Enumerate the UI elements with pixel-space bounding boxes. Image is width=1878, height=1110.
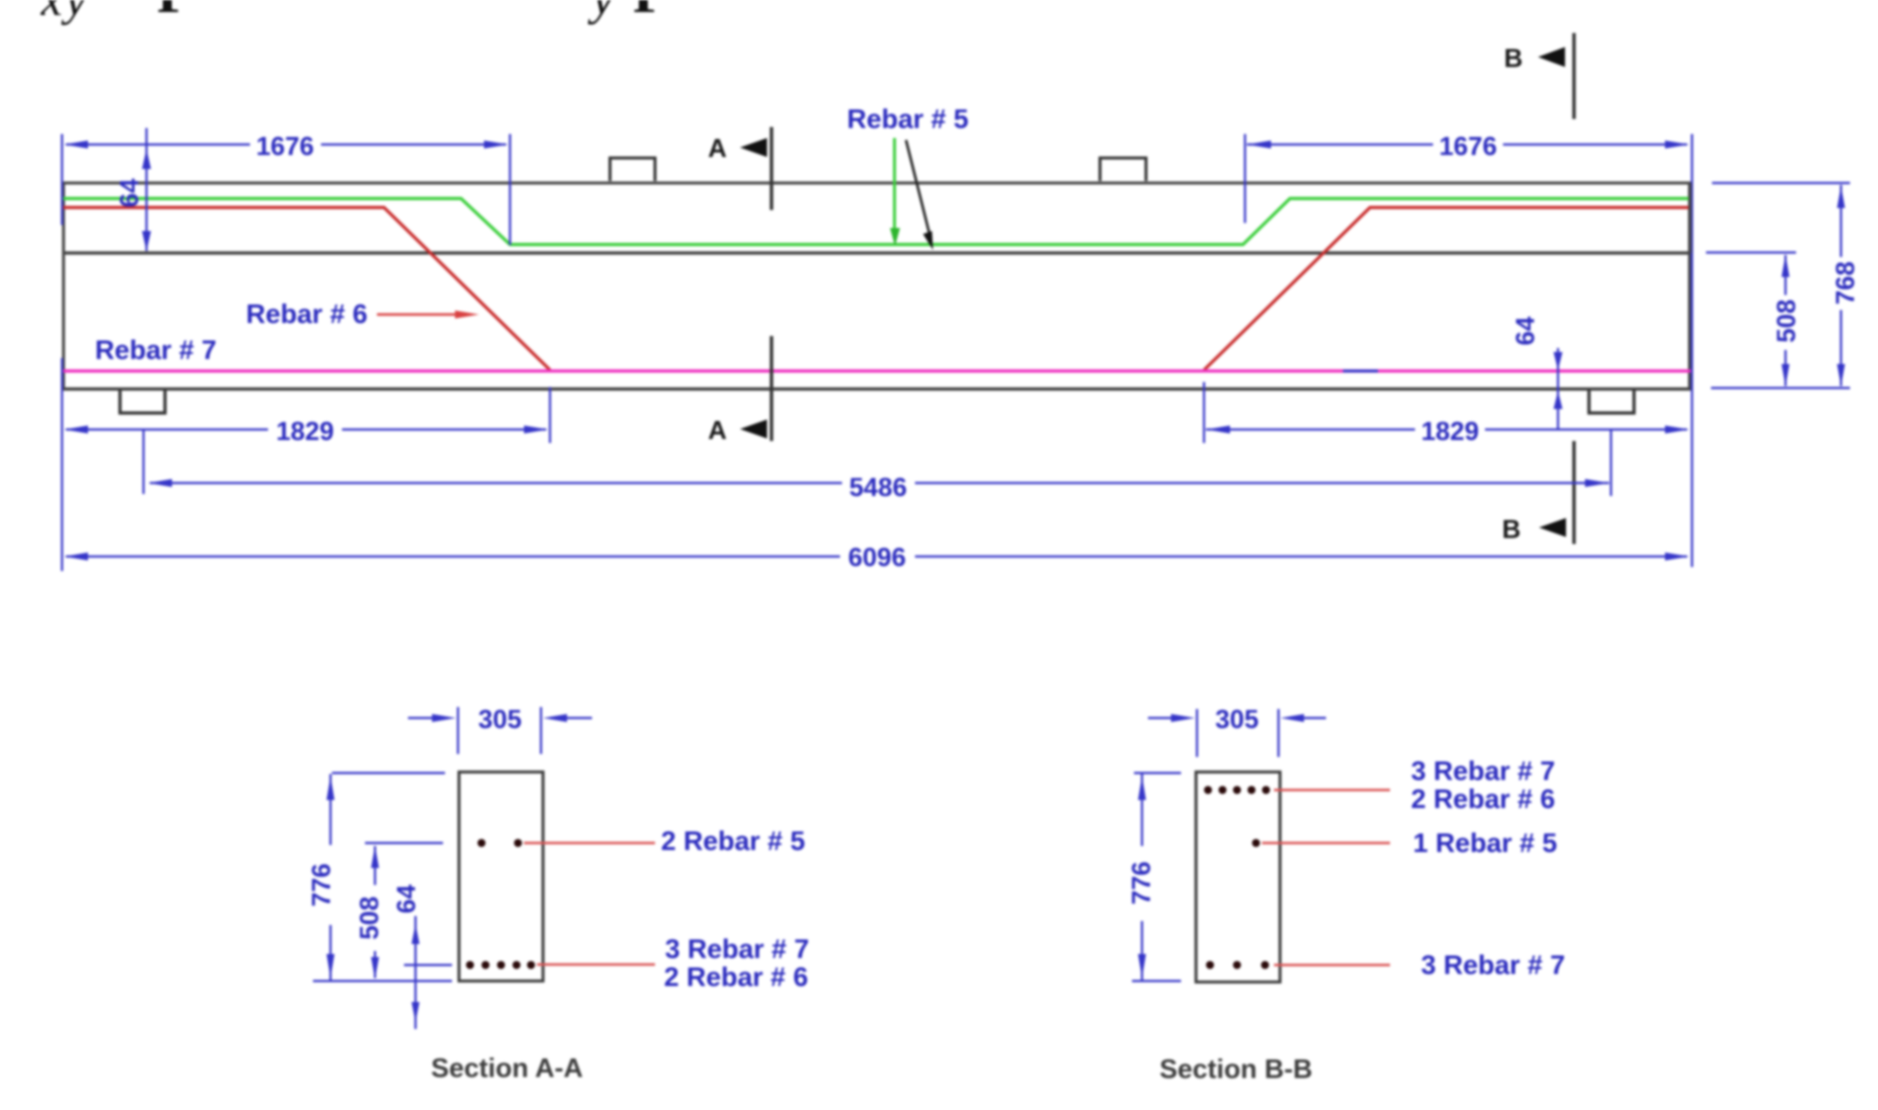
section B-B middle rebar dot (1 Rebar #5) [1252,839,1260,847]
svg-text:3 Rebar # 7: 3 Rebar # 7 [665,934,809,964]
dimension 776 (B-B) [1132,773,1181,981]
beam bottom line [62,387,1691,390]
dimension 305 (A-A) [408,707,592,754]
svg-text:B: B [1504,43,1523,73]
section line B top [1572,33,1575,119]
section line B bottom [1572,441,1575,544]
rebar #7 (magenta) straight bar [62,369,1691,372]
dimension 768 right side [1711,183,1850,388]
svg-text:64: 64 [1510,316,1540,345]
svg-text:305: 305 [1215,704,1258,734]
svg-text:64: 64 [114,178,144,207]
svg-text:Rebar # 5: Rebar # 5 [847,104,969,134]
leader 2 Rebar # 5 (A-A) [524,842,655,845]
dimension 508 right side [1706,253,1796,387]
beam right edge dark overdraw [1689,183,1692,253]
svg-text:Section A-A: Section A-A [431,1053,583,1083]
dimension 64 right (rebar 7 cover) [1557,348,1559,429]
svg-text:A: A [708,133,727,163]
dimension 1676 left [66,134,510,245]
support block left [120,390,165,413]
blue tick on rebar 7 [1343,370,1378,373]
svg-text:1 Rebar # 5: 1 Rebar # 5 [1413,828,1557,858]
leader red arrow for rebar 6 [377,313,462,315]
svg-text:1829: 1829 [276,416,334,446]
dimension 305 (B-B) [1148,709,1326,757]
dimension 776 (A-A) [313,773,452,981]
rebar #5 (green) bent bar [62,199,1691,245]
svg-text:2 Rebar # 5: 2 Rebar # 5 [661,826,805,856]
svg-text:y: y [587,0,615,25]
dimension 1676 right [1245,134,1687,223]
svg-text:3 Rebar # 7: 3 Rebar # 7 [1421,950,1565,980]
leader black for rebar 5 [906,140,930,236]
extension line beam right edge (blue) [1691,134,1693,567]
extension line beam left edge (blue) [61,134,63,571]
leader 3#7/2#6 (A-A) [537,963,655,966]
section A-A outline [459,772,543,981]
leader green for rebar 5 [893,138,896,232]
svg-text:B: B [1502,514,1521,544]
leader top row (B-B) [1274,789,1390,792]
section B-B top rebar dots (3#7+2#6) [1204,786,1270,794]
beam left edge [62,183,65,389]
rebar #6 (red) bent bar left [62,208,550,371]
svg-text:xy: xy [40,0,90,26]
beam top line [62,182,1691,185]
dimension 64 (A-A) [404,916,452,1029]
dimension 508 (A-A) [365,843,443,978]
dimension 64 top-left [145,128,147,251]
svg-text:2 Rebar # 6: 2 Rebar # 6 [1411,784,1555,814]
svg-text:Rebar # 6: Rebar # 6 [246,299,368,329]
svg-text:1829: 1829 [1421,416,1479,446]
section B-B bottom rebar dots (3 Rebar #7) [1206,961,1269,969]
svg-text:2 Rebar # 6: 2 Rebar # 6 [664,962,808,992]
svg-text:1676: 1676 [256,131,314,161]
svg-text:3 Rebar # 7: 3 Rebar # 7 [1411,756,1555,786]
svg-text:A: A [708,415,727,445]
svg-text:64: 64 [391,884,421,913]
svg-text:1676: 1676 [1439,131,1497,161]
load block left [610,158,655,181]
dimension 5486 [144,429,1612,496]
svg-text:305: 305 [478,704,521,734]
svg-text:P: P [633,0,668,25]
section A-A top rebar dots (2 Rebar #5) [478,839,523,847]
section line A bottom [770,336,773,441]
svg-text:5486: 5486 [849,472,907,502]
svg-text:776: 776 [1126,861,1156,904]
rebar #6 (red) bent bar right [1204,208,1691,371]
dimension 1829 left [66,387,550,443]
section B-B outline [1196,772,1280,982]
dimension 6096 [66,555,1687,557]
section line A top [770,127,773,210]
svg-text:Rebar # 7: Rebar # 7 [95,335,217,365]
svg-text:P: P [157,0,192,25]
leader middle (B-B) [1262,842,1390,845]
svg-text:508: 508 [1771,299,1801,342]
leader bottom (B-B) [1274,964,1390,967]
dimension 1829 right [1204,382,1687,443]
svg-text:508: 508 [354,896,384,939]
support block right [1589,390,1634,413]
svg-text:768: 768 [1830,261,1860,304]
load block right [1100,158,1146,181]
beam mid line (flange soffit) [62,251,1691,254]
svg-text:Section B-B: Section B-B [1159,1054,1312,1084]
svg-text:6096: 6096 [848,542,906,572]
section A-A bottom rebar dots (3#7+2#6) [466,961,535,969]
svg-text:776: 776 [306,863,336,906]
beam right edge [1688,183,1691,389]
